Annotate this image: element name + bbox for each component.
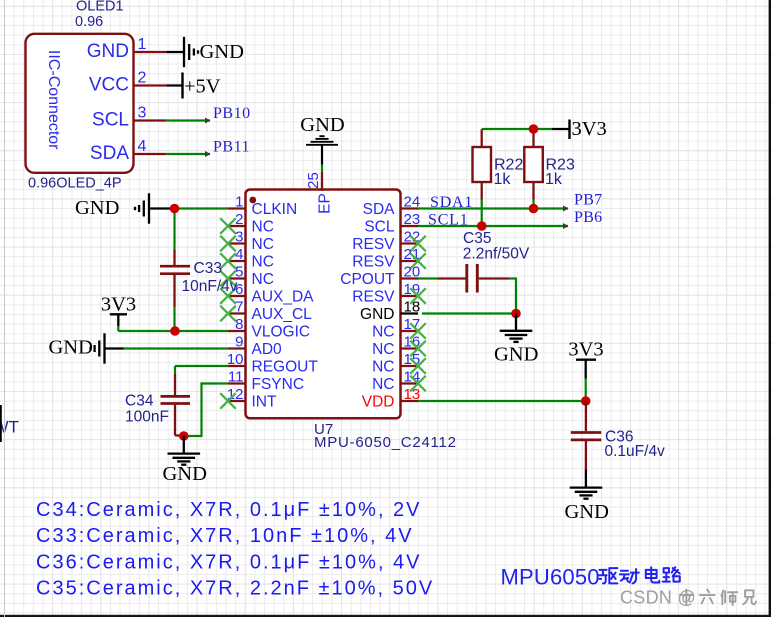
svg-text:VLOGIC: VLOGIC xyxy=(252,324,311,341)
svg-text:GND: GND xyxy=(49,337,93,359)
svg-text:REGOUT: REGOUT xyxy=(252,359,319,376)
svg-text:CPOUT: CPOUT xyxy=(340,271,395,288)
svg-text:1k: 1k xyxy=(494,171,512,188)
U7 pin 3 (NC) xyxy=(220,229,274,254)
svg-text:2: 2 xyxy=(235,211,243,228)
svg-text:GND: GND xyxy=(300,114,344,136)
svg-text:4: 4 xyxy=(235,246,243,263)
svg-text:EP: EP xyxy=(317,193,334,214)
C34 labels xyxy=(125,393,169,426)
svg-text:WT: WT xyxy=(0,418,19,437)
resistor R22 xyxy=(473,130,492,200)
U7 pin 19 (RESV) xyxy=(352,281,426,306)
U7 pin 5 (NC) xyxy=(220,264,274,289)
node junction at CLKIN/C33 xyxy=(170,204,180,214)
svg-text:SCL: SCL xyxy=(92,110,129,131)
svg-text:C35: C35 xyxy=(463,230,491,247)
capacitor spec notes xyxy=(36,499,434,600)
wire EP pin to ground xyxy=(321,146,323,173)
svg-text:AUX_DA: AUX_DA xyxy=(252,289,315,306)
svg-text:2.2nf/50V: 2.2nf/50V xyxy=(463,246,530,263)
svg-text:CSDN @: CSDN @ xyxy=(620,588,696,608)
ground symbol GND feeding CLKIN / C33 xyxy=(75,193,175,223)
svg-text:0.96OLED_4P: 0.96OLED_4P xyxy=(28,176,122,192)
U7 pin 6 (AUX_DA) xyxy=(220,281,314,306)
svg-text:GND: GND xyxy=(163,463,207,485)
ground symbol GND below C34 xyxy=(163,436,207,485)
wire U7 pin 18 GND to junction xyxy=(422,312,516,314)
node junction R23 top xyxy=(529,124,539,134)
svg-text:NC: NC xyxy=(372,324,394,341)
svg-text:3: 3 xyxy=(138,105,147,122)
svg-text:CLKIN: CLKIN xyxy=(252,201,298,218)
OLED1 pin 4 (SDA) xyxy=(90,138,166,164)
svg-text:MPU6050: MPU6050 xyxy=(501,565,600,590)
capacitor C33 xyxy=(160,250,190,307)
svg-text:NC: NC xyxy=(372,359,394,376)
svg-text:C36:Ceramic, X7R, 0.1μF ±10%,: C36:Ceramic, X7R, 0.1μF ±10%, 4V xyxy=(36,552,422,574)
connector OLED1 refdes label xyxy=(75,0,124,30)
U7 pin 12 (INT) xyxy=(220,386,277,411)
wire 3V3 to U7 pin 8 VLOGIC xyxy=(118,326,228,331)
svg-text:PB10: PB10 xyxy=(213,105,251,122)
svg-text:GND: GND xyxy=(75,197,119,219)
svg-text:NC: NC xyxy=(252,219,274,236)
node junction C34/FSYNC ground xyxy=(179,431,189,441)
svg-text:GND: GND xyxy=(360,306,394,323)
node junction VDD/3V3/C36 xyxy=(581,396,591,406)
power symbol 3V3 (above C36) xyxy=(568,339,603,379)
U7 pin 16 (NC) xyxy=(372,334,426,359)
ground symbol GND below C36 xyxy=(565,470,609,524)
net label PB11 xyxy=(213,139,250,156)
svg-text:PB11: PB11 xyxy=(213,139,250,156)
U7 pin 1 (CLKIN) xyxy=(228,194,297,219)
U7 pin 9 (AD0) xyxy=(228,334,282,359)
capacitor C35 xyxy=(438,264,509,293)
svg-text:FSYNC: FSYNC xyxy=(252,376,305,393)
U7 refdes label xyxy=(314,421,333,438)
node junction R23/SDA1 xyxy=(529,204,539,214)
svg-text:10nF/4v: 10nF/4v xyxy=(182,278,238,295)
svg-text:VDD: VDD xyxy=(362,394,395,411)
ground symbol GND above U7 (EP) xyxy=(300,114,344,145)
svg-text:NC: NC xyxy=(252,271,274,288)
R23 labels xyxy=(545,157,575,189)
U7 pin 8 (VLOGIC) xyxy=(228,316,310,341)
wire junction down to C33 xyxy=(173,209,175,251)
OLED1 pin 3 (SCL) xyxy=(92,105,166,131)
svg-text:0.96: 0.96 xyxy=(75,14,103,30)
schematic title MPU6050 drive circuit xyxy=(501,565,680,590)
OLED1 pin 1 (GND) xyxy=(87,36,167,62)
wire U7 pin 13 VDD to C36 junction xyxy=(418,400,586,402)
svg-text:RESV: RESV xyxy=(352,289,395,306)
op-amp/IC U7 MPU-6050 body xyxy=(246,190,401,419)
U7 value label MPU-6050_C24112 xyxy=(314,434,457,451)
svg-text:11: 11 xyxy=(228,369,244,386)
svg-text:20: 20 xyxy=(404,264,421,281)
U7 pin 17 (NC) xyxy=(372,316,426,341)
wire GND to U7 pin 9 AD0 xyxy=(124,347,229,349)
U7 pin 14 (NC) xyxy=(372,369,426,394)
svg-text:1: 1 xyxy=(138,36,147,53)
svg-text:1: 1 xyxy=(235,194,243,211)
svg-text:4: 4 xyxy=(138,138,147,155)
wire C33 bottom to VLOGIC rail xyxy=(173,307,175,331)
net label PB7 xyxy=(574,192,602,209)
wire 3V3 rail over resistors xyxy=(482,129,552,130)
U7 pin 13 (VDD) xyxy=(362,386,420,411)
U7 pin 10 (REGOUT) xyxy=(227,351,319,376)
net label PB10 xyxy=(213,105,251,122)
U7 pin 21 (RESV) xyxy=(352,246,426,271)
svg-text:PB7: PB7 xyxy=(574,192,602,209)
resistor R23 xyxy=(524,130,543,200)
svg-text:IIC-Connector: IIC-Connector xyxy=(45,50,62,150)
svg-text:NC: NC xyxy=(372,376,394,393)
node junction C33/VLOGIC xyxy=(170,326,180,336)
wire 3V3 down to VDD junction xyxy=(585,379,587,402)
power symbol 3V3 (top right) xyxy=(552,118,607,140)
U7 pin 15 (NC) xyxy=(372,351,426,376)
svg-text:0.1uF/4v: 0.1uF/4v xyxy=(605,443,666,460)
svg-text:NC: NC xyxy=(372,341,394,358)
U7 pin 23 (SCL) xyxy=(364,211,420,236)
net label WT (cut off at left edge) xyxy=(0,405,19,442)
svg-text:+5V: +5V xyxy=(184,76,221,98)
svg-text:GND: GND xyxy=(200,41,244,63)
svg-text:SDA: SDA xyxy=(90,143,129,164)
U7 pin 7 (AUX_CL) xyxy=(220,299,312,324)
wire R23 bottom to SDA1 xyxy=(532,200,534,209)
power symbol +5V at OLED1 pin 2 xyxy=(166,73,221,99)
C36 labels xyxy=(605,429,666,461)
U7 pin 22 (RESV) xyxy=(352,229,426,254)
svg-text:AD0: AD0 xyxy=(252,341,283,358)
R22 labels xyxy=(494,157,524,189)
U7 pin 18 (GND) xyxy=(360,299,420,324)
wire GND junction to U7 pin1 CLKIN xyxy=(175,207,229,209)
svg-text:3V3: 3V3 xyxy=(101,294,136,316)
U7 pin 11 (FSYNC) xyxy=(228,369,304,394)
node junction R22/SCL1 xyxy=(477,221,487,231)
U7 pin 20 (CPOUT) xyxy=(340,264,420,289)
ground symbol GND at OLED1 pin 1 xyxy=(166,37,244,67)
wire SCL1 from U7 pin 23 to PB6 xyxy=(418,223,569,229)
connector OLED1 footprint label 0.96OLED_4P xyxy=(28,176,122,192)
net label PB6 xyxy=(574,209,602,226)
U7 pin 24 (SDA) xyxy=(363,194,421,219)
svg-text:24: 24 xyxy=(404,194,421,211)
svg-text:C35:Ceramic, X7R, 2.2nF ±10%,: C35:Ceramic, X7R, 2.2nF ±10%, 50V xyxy=(36,578,434,600)
svg-text:C33: C33 xyxy=(194,260,222,277)
svg-text:SCL1: SCL1 xyxy=(428,212,469,229)
svg-text:10: 10 xyxy=(227,351,244,368)
U7 pin 25 (EP) xyxy=(305,172,334,214)
net label SCL1 xyxy=(428,212,469,229)
net label SDA1 xyxy=(430,194,473,211)
svg-text:3V3: 3V3 xyxy=(572,118,607,140)
C33 labels xyxy=(182,260,238,295)
svg-text:SDA1: SDA1 xyxy=(430,194,473,211)
svg-text:RESV: RESV xyxy=(352,236,395,253)
svg-text:GND: GND xyxy=(87,41,129,62)
svg-text:INT: INT xyxy=(252,394,278,411)
wire R22 bottom to SCL1 xyxy=(481,200,483,227)
connector OLED1 body xyxy=(26,34,134,173)
watermark CSDN @shiliushixiong xyxy=(620,588,756,608)
node junction C35/GND xyxy=(511,309,521,319)
svg-text:1k: 1k xyxy=(545,171,563,188)
power symbol 3V3 (left) xyxy=(101,294,136,327)
svg-text:C34: C34 xyxy=(125,393,154,410)
svg-text:GND: GND xyxy=(565,501,609,523)
wire U7 pin 20 CPOUT to C35 xyxy=(418,277,438,279)
svg-text:NC: NC xyxy=(252,254,274,271)
svg-text:C34:Ceramic, X7R, 0.1μF ±10%,: C34:Ceramic, X7R, 0.1μF ±10%, 2V xyxy=(36,499,422,521)
capacitor C36 xyxy=(571,401,602,470)
svg-text:13: 13 xyxy=(404,386,421,403)
svg-text:AUX_CL: AUX_CL xyxy=(252,306,313,323)
svg-text:9: 9 xyxy=(235,334,243,351)
C35 labels xyxy=(463,230,530,263)
wire U7 pin 11 FSYNC down to ground junction xyxy=(184,384,228,437)
svg-text:SCL: SCL xyxy=(364,219,395,236)
svg-text:VCC: VCC xyxy=(89,75,129,96)
capacitor C34 xyxy=(161,373,191,435)
svg-text:3: 3 xyxy=(235,229,243,246)
U7 pin 2 (NC) xyxy=(220,211,274,236)
svg-text:25: 25 xyxy=(305,172,322,189)
svg-text:MPU-6050_C24112: MPU-6050_C24112 xyxy=(314,434,457,451)
wire SDA1 from U7 pin 24 to PB7 xyxy=(418,206,569,212)
svg-text:3V3: 3V3 xyxy=(568,339,603,361)
wire U7 pin 10 REGOUT to C34 xyxy=(175,366,228,373)
svg-text:GND: GND xyxy=(494,344,538,366)
svg-text:OLED1: OLED1 xyxy=(76,0,124,15)
ground symbol GND at AD0 xyxy=(49,333,124,363)
svg-text:2: 2 xyxy=(138,70,147,87)
OLED1 pin 2 (VCC) xyxy=(89,70,166,96)
svg-text:NC: NC xyxy=(252,236,274,253)
svg-text:C33:Ceramic, X7R, 10nF ±10%, 4: C33:Ceramic, X7R, 10nF ±10%, 4V xyxy=(36,525,414,547)
wire from OLED1 pin 4 to net PB11 xyxy=(166,151,210,157)
svg-text:100nF: 100nF xyxy=(125,409,169,426)
svg-text:18: 18 xyxy=(404,299,421,316)
svg-text:23: 23 xyxy=(404,211,421,228)
wire C35 right to ground junction xyxy=(509,279,517,314)
svg-text:8: 8 xyxy=(235,316,243,333)
svg-text:7: 7 xyxy=(235,299,243,316)
svg-text:RESV: RESV xyxy=(352,254,395,271)
ground symbol GND right of U7 xyxy=(494,314,538,366)
wire from OLED1 pin 3 to net PB10 xyxy=(166,118,210,124)
svg-text:PB6: PB6 xyxy=(574,209,602,226)
U7 pin 4 (NC) xyxy=(220,246,274,271)
svg-text:SDA: SDA xyxy=(363,201,396,218)
